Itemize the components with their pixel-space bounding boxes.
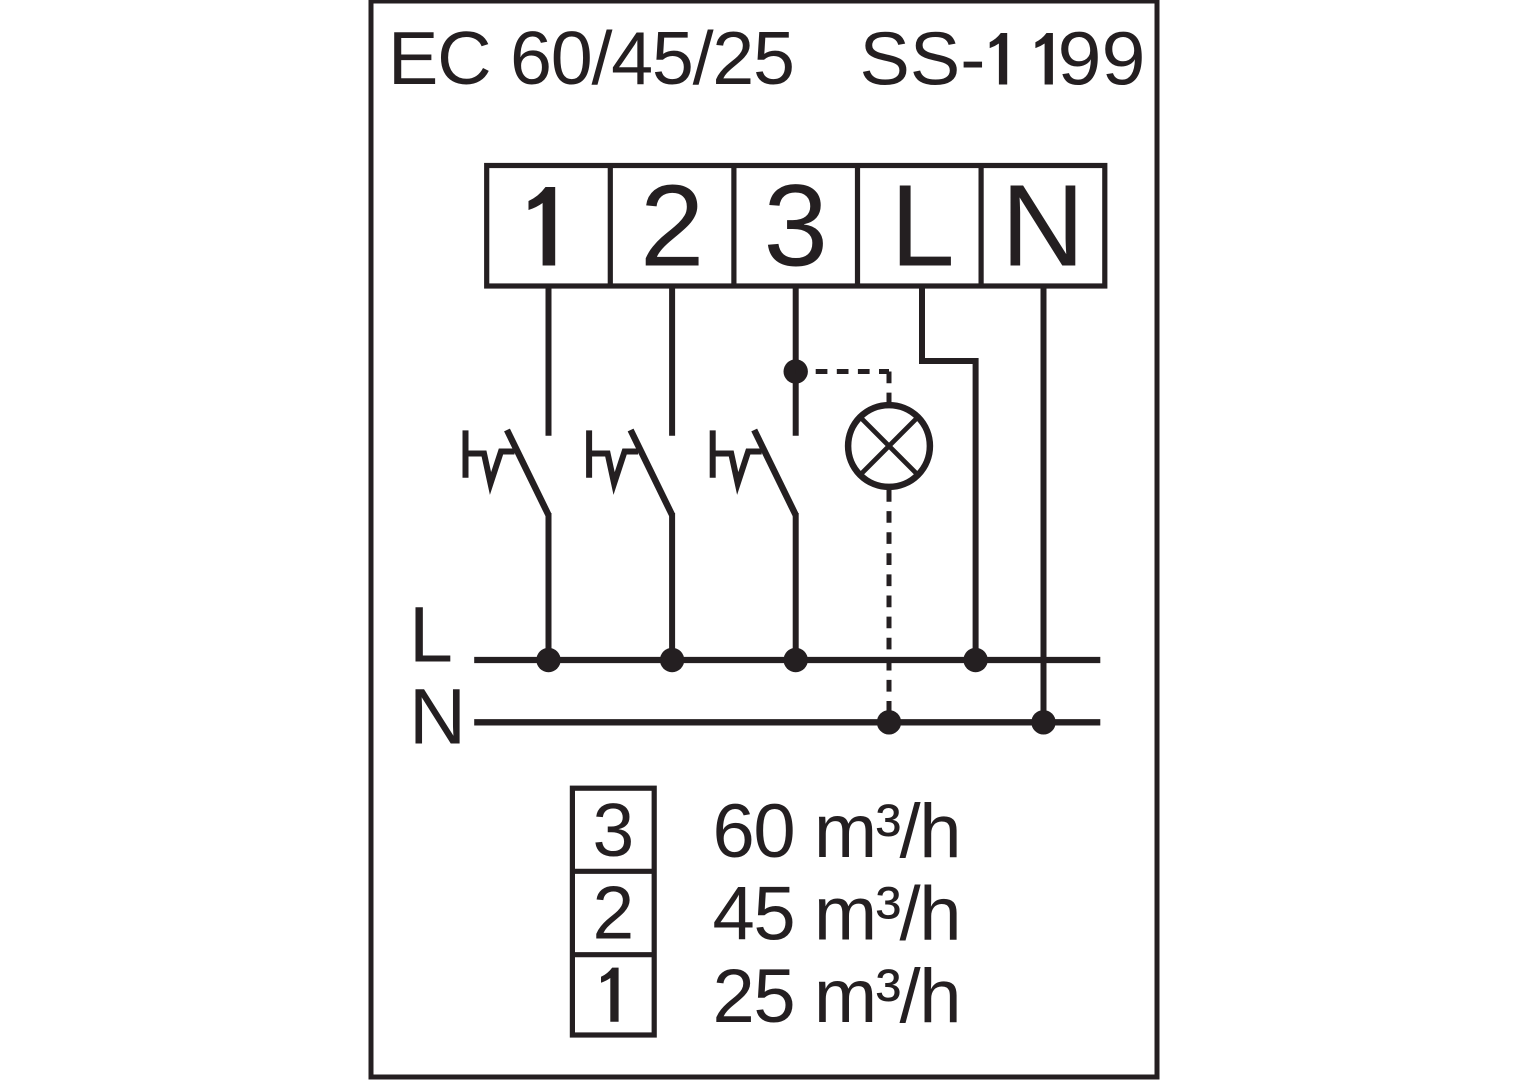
svg-text:60 m³/h: 60 m³/h <box>713 789 962 874</box>
svg-text:L: L <box>409 590 453 679</box>
junction node on wire 3 <box>784 359 808 383</box>
wire below switch S3 <box>793 513 799 662</box>
terminal divider 1|2 <box>608 166 613 287</box>
svg-text:2: 2 <box>592 871 634 955</box>
lamp indicator circle <box>848 405 930 487</box>
terminal block outline <box>487 166 1105 287</box>
legend digit 1 <box>601 968 619 1022</box>
terminal divider L|N <box>978 166 983 287</box>
svg-text:N: N <box>1001 161 1085 291</box>
switch S1 spring bracket <box>466 430 515 483</box>
outer frame <box>371 1 1157 1077</box>
node dot S1 on L bus <box>536 648 560 672</box>
dashed lamp wire to N bus <box>887 490 892 722</box>
wire below switch S1 <box>546 513 552 662</box>
wire from terminal L with jog <box>922 284 976 660</box>
lamp indicator cross <box>860 417 918 475</box>
svg-text:99: 99 <box>1058 17 1146 101</box>
title SS-1199 <box>860 17 1146 101</box>
L bus wire <box>474 657 1100 663</box>
switch S1 blade <box>507 430 549 515</box>
legend box outline <box>572 788 654 1035</box>
svg-text:3: 3 <box>592 788 634 872</box>
switch S2 blade <box>631 430 673 515</box>
svg-text:45 m³/h: 45 m³/h <box>713 872 962 957</box>
node dot L feed on L bus <box>963 648 987 672</box>
svg-text:L: L <box>890 161 955 291</box>
wire from terminal 1 <box>546 284 552 436</box>
dashed control link vertical <box>887 372 892 403</box>
svg-text:EC 60/45/25: EC 60/45/25 <box>388 16 795 100</box>
legend divider 3|2 <box>572 869 654 874</box>
node dot N feed on N bus <box>1031 710 1055 734</box>
N bus wire <box>474 719 1100 725</box>
wire below switch S2 <box>669 513 675 662</box>
svg-text:N: N <box>409 672 466 761</box>
terminal divider 2|3 <box>731 166 736 287</box>
svg-text:SS-: SS- <box>860 17 986 101</box>
switch S3 spring bracket <box>713 430 762 483</box>
switch S3 blade <box>754 430 796 515</box>
terminal pin label 1 <box>529 187 556 266</box>
switch S2 spring bracket <box>589 430 638 483</box>
node dot lamp on N bus <box>877 710 901 734</box>
svg-text:3: 3 <box>763 161 828 291</box>
wire from terminal N <box>1041 284 1047 722</box>
node dot S2 on L bus <box>660 648 684 672</box>
legend divider 2|1 <box>572 952 654 957</box>
svg-text:25 m³/h: 25 m³/h <box>713 954 962 1039</box>
wire from terminal 2 <box>669 284 675 436</box>
svg-text:2: 2 <box>640 161 705 291</box>
wire from terminal 3 <box>793 284 799 436</box>
terminal divider 3|L <box>855 166 860 287</box>
dashed control link horizontal <box>796 369 889 374</box>
node dot S3 on L bus <box>784 648 808 672</box>
